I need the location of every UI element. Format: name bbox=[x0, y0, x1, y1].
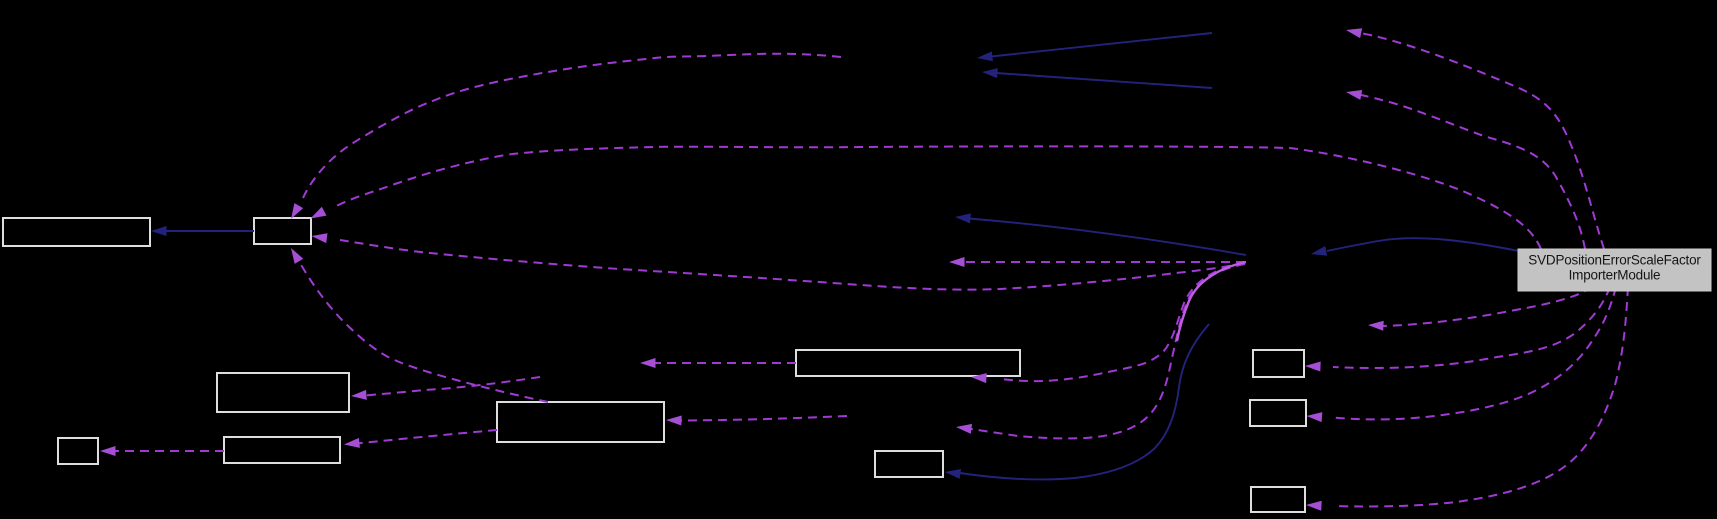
arrowhead at NF bbox=[949, 257, 965, 267]
node B5 bbox=[224, 437, 340, 463]
edge main to B2 long top bbox=[333, 146, 1541, 249]
edge blue NE to ND bbox=[969, 219, 1246, 256]
edge NE to NK bbox=[971, 264, 1245, 438]
edge NK to B6 bbox=[680, 416, 847, 421]
bundle solid overlay bbox=[1177, 262, 1246, 341]
arrowhead at B2 corner bbox=[311, 207, 327, 219]
node B7 bbox=[796, 350, 1020, 376]
arrowhead at NH bbox=[640, 358, 656, 368]
edge B6 to B5 bbox=[356, 430, 497, 444]
arrowhead at B2 right bbox=[312, 233, 328, 243]
node B2 bbox=[254, 218, 311, 244]
svg-text:SVDPositionErrorScaleFactor: SVDPositionErrorScaleFactor bbox=[1528, 253, 1701, 268]
arrowhead at B11 bbox=[1306, 501, 1322, 511]
edge main to NB bbox=[1361, 95, 1585, 249]
arrowhead at B10 bbox=[1307, 412, 1323, 422]
arrowhead blue at B8 bbox=[945, 469, 961, 479]
arrowhead blue at NE bbox=[1311, 246, 1327, 256]
edge blue B2 to B1 bbox=[165, 230, 254, 232]
edge NC to B2 top bbox=[303, 54, 841, 198]
node B10 bbox=[1250, 400, 1306, 426]
arrowhead at NA bbox=[1346, 28, 1362, 38]
node B6 bbox=[497, 402, 664, 442]
arrowhead blue at NC lower bbox=[982, 68, 998, 78]
arrowhead at B6 bbox=[666, 416, 682, 426]
arrowhead at NM bbox=[971, 373, 987, 383]
edge blue NA to NC bbox=[991, 33, 1212, 57]
edge main to B9 bbox=[1333, 287, 1610, 368]
arrowhead at NL bbox=[1368, 321, 1384, 331]
edge B6 to B2 up bbox=[300, 263, 548, 402]
arrowhead at NB bbox=[1346, 90, 1362, 100]
arrowhead at B9 bbox=[1305, 362, 1321, 372]
arrowhead at B5 bbox=[344, 438, 360, 448]
arrowhead blue at NC upper bbox=[977, 51, 993, 61]
arrowhead at B4 bbox=[100, 446, 116, 456]
arrowhead at B3 bbox=[351, 390, 367, 400]
node B9 bbox=[1253, 350, 1304, 377]
node B8 bbox=[875, 451, 943, 477]
node MAIN SVDPositionErrorScaleFactorImporterModule bbox=[1518, 249, 1711, 291]
edge main to NL bbox=[1382, 287, 1592, 326]
edge main to NA bbox=[1360, 33, 1604, 249]
node B11 bbox=[1251, 487, 1305, 512]
arrowhead at B2 top bbox=[291, 203, 303, 219]
node B1 bbox=[3, 218, 150, 246]
arrowhead at B2 bottom bbox=[291, 248, 303, 264]
node B4 bbox=[58, 438, 98, 464]
edge main to B10 bbox=[1333, 287, 1616, 419]
arrowhead blue at B1 bbox=[151, 226, 167, 236]
svg-text:ImporterModule: ImporterModule bbox=[1569, 268, 1661, 283]
node B3 bbox=[217, 373, 349, 412]
edge NE to NM bbox=[1000, 263, 1245, 381]
edge blue NB to NC bbox=[996, 73, 1212, 88]
arrowhead at NK bbox=[956, 424, 972, 434]
edge NE to NF bbox=[963, 261, 1245, 263]
edge blue NI to B8 bbox=[960, 324, 1209, 479]
arrowhead blue at ND bbox=[955, 213, 971, 223]
edge NH to B3 bbox=[365, 377, 540, 396]
edge main to B11 bbox=[1333, 287, 1628, 507]
edge B5 to B4 bbox=[114, 450, 224, 452]
edge blue main to NE bbox=[1327, 238, 1519, 251]
edge B7 to NH bbox=[654, 362, 796, 364]
edge NE to B2 right bbox=[340, 240, 1245, 290]
